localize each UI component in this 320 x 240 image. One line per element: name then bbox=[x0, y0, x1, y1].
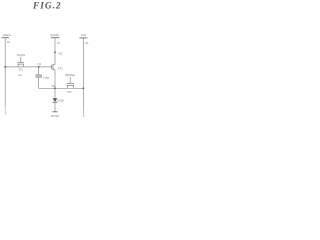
svg-text:N1: N1 bbox=[37, 62, 41, 66]
svg-text:ST2: ST2 bbox=[67, 91, 72, 94]
svg-text:OLED: OLED bbox=[57, 99, 64, 102]
transistor DT channel and gate bars bbox=[51, 65, 53, 70]
diode OLED anode triangle bbox=[53, 98, 58, 102]
diode OLED cathode bar bbox=[53, 101, 58, 103]
svg-text:SCAN: SCAN bbox=[17, 53, 25, 57]
svg-text:Vdata: Vdata bbox=[3, 33, 11, 37]
svg-text:ST1: ST1 bbox=[18, 68, 23, 72]
svg-text:Vref: Vref bbox=[81, 33, 87, 37]
svg-text:PL: PL bbox=[57, 41, 61, 45]
transistor ST2 legs and gate lead bbox=[68, 77, 74, 88]
wire DT source down to row2 bbox=[54, 70, 56, 89]
svg-text:2a1: 2a1 bbox=[18, 73, 23, 77]
wire row2 node N2 bbox=[39, 87, 84, 89]
node N1 junction bbox=[38, 66, 40, 68]
transistor ST2 channel and gate bars bbox=[67, 84, 74, 86]
svg-text:SENSE: SENSE bbox=[65, 73, 75, 77]
svg-text:FIG.2: FIG.2 bbox=[32, 2, 62, 12]
node Vdata supply bar bbox=[1, 37, 9, 39]
node junction row2/RL bbox=[83, 87, 85, 89]
node junction row2/OLED bbox=[54, 87, 56, 89]
svg-text:RL: RL bbox=[85, 41, 89, 45]
svg-text:N2: N2 bbox=[52, 84, 56, 88]
node Vref supply bar bbox=[79, 37, 87, 39]
node junction DL/row1 bbox=[4, 66, 6, 68]
transistor ST1 channel and gate bars bbox=[17, 63, 24, 65]
diode OLED leads bbox=[54, 88, 56, 111]
svg-text:DL: DL bbox=[7, 40, 11, 44]
node N2 marker on PL bbox=[54, 51, 56, 53]
svg-text:DT1: DT1 bbox=[58, 67, 64, 71]
node EVSS bar bbox=[52, 111, 57, 113]
wire reference line RL vertical bbox=[82, 38, 84, 108]
transistor DT stubs bbox=[53, 64, 55, 69]
svg-text:Cstg: Cstg bbox=[43, 76, 50, 80]
transistor ST1 legs and gate lead bbox=[18, 57, 23, 67]
svg-text:EVDD: EVDD bbox=[51, 33, 60, 37]
svg-text:N2: N2 bbox=[58, 52, 62, 56]
capacitor Cstg plates bbox=[35, 74, 42, 76]
capacitor Cstg leads bbox=[38, 67, 40, 88]
node EVDD supply bar bbox=[51, 37, 60, 39]
wire power line PL vertical upper bbox=[54, 38, 56, 65]
wire row1 from DL to DT gate bbox=[5, 66, 51, 68]
wire data line DL vertical bbox=[4, 38, 6, 106]
svg-text:EVSS: EVSS bbox=[51, 114, 59, 118]
